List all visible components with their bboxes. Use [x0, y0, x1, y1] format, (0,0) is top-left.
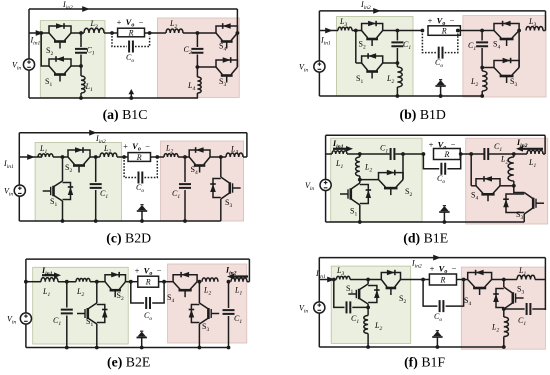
- wire S3 to bottom (e): [198, 324, 200, 348]
- svg-text:(e) B2E: (e) B2E: [107, 355, 150, 371]
- wire L2 to S4 (a): [183, 32, 216, 34]
- green highlight box (a): [40, 21, 105, 98]
- node S1 bottom (d): [358, 220, 362, 224]
- node input (e): [24, 280, 28, 284]
- inductor L1 red (f): [517, 275, 535, 279]
- node L2 red top (d): [512, 152, 516, 156]
- wire input (e): [26, 281, 41, 283]
- inductor L4 (a): [197, 77, 201, 93]
- green highlight box (d): [331, 138, 422, 221]
- wire right rail (d): [544, 135, 546, 154]
- capacitor Co (a): [129, 41, 133, 53]
- svg-text:Vin: Vin: [7, 315, 16, 326]
- wire left rail lower (b): [318, 72, 320, 96]
- ground symbol (c): [141, 211, 143, 221]
- node S3 top (d): [512, 184, 516, 188]
- voltage source Vin (b): [314, 61, 325, 72]
- wire S1 to node (b): [383, 62, 398, 64]
- wire node to L2 red (b): [481, 68, 483, 72]
- wire L4 to bottom (a): [196, 93, 198, 98]
- node R right (c): [155, 155, 159, 159]
- arrow Iin2 (a): [82, 6, 90, 12]
- wire C1 upper lead (a): [80, 33, 82, 47]
- svg-text:Co: Co: [144, 311, 152, 322]
- transistor S4 (f): [468, 273, 492, 280]
- node L4 top (a): [196, 65, 200, 69]
- voltage source Vin (d): [320, 179, 331, 190]
- wire to S1 left (b): [356, 62, 362, 64]
- wire dashed Co left (c): [124, 160, 136, 178]
- wire L3 to S2 (f): [350, 279, 381, 281]
- transistor S4 (c): [189, 150, 210, 157]
- wire C1 green lower (c): [95, 190, 97, 221]
- svg-text:Vin: Vin: [299, 304, 308, 315]
- wire left rail upper (a): [28, 9, 30, 59]
- svg-text:Iin1: Iin1: [315, 269, 326, 280]
- transistor S1 (b): [362, 56, 383, 63]
- wire L1 to rail (f): [535, 279, 545, 281]
- svg-text:+: +: [428, 16, 433, 26]
- capacitor Co (e): [146, 297, 150, 309]
- node R right (d): [459, 152, 463, 156]
- node S3 top (f): [502, 278, 506, 282]
- wire left rail upper (d): [325, 135, 327, 179]
- arrow Iin2 (e): [231, 275, 248, 277]
- node R right (e): [162, 280, 166, 284]
- node S1 top (d): [358, 178, 362, 182]
- node L2 green top (b): [396, 61, 400, 65]
- transistor S2 (d): [379, 173, 404, 180]
- svg-text:R: R: [128, 28, 134, 37]
- node C1 green top (e): [65, 280, 69, 284]
- node R right (f): [462, 278, 466, 282]
- wire R to C1 red (d): [461, 153, 485, 155]
- node R left (e): [129, 280, 133, 284]
- wire L1 red to rail (e): [247, 281, 249, 283]
- node S3 bottom (e): [198, 346, 202, 350]
- wire node to L4 (a): [196, 67, 198, 77]
- node ground (b): [439, 94, 443, 98]
- svg-text:(b) B1D: (b) B1D: [400, 107, 446, 123]
- arrow Iin1 (b): [325, 28, 333, 34]
- red highlight box (b): [463, 16, 546, 97]
- red highlight box (c): [161, 141, 244, 221]
- wire L1 to bottom (a): [80, 93, 82, 98]
- wire Co right (f): [446, 280, 464, 307]
- capacitor C1 red (e): [223, 310, 235, 314]
- inductor L1 red (d): [527, 150, 543, 154]
- wire R to S4 (e): [159, 281, 174, 283]
- inductor L2 red (b): [482, 71, 487, 91]
- node S2 riser top (d): [401, 152, 405, 156]
- node S1 top (e): [95, 280, 99, 284]
- arrow Iin2 (f): [433, 255, 441, 261]
- wire L1 red to rail (d): [543, 153, 545, 155]
- transistor S4 (e): [173, 275, 197, 282]
- wire C1 red upper (e): [228, 282, 230, 308]
- capacitor C1 green (e): [61, 310, 73, 314]
- transistor S4 (d): [476, 179, 500, 186]
- capacitor C1 green (d): [391, 148, 395, 160]
- node S3 bottom (f): [502, 307, 506, 311]
- svg-text:+: +: [135, 266, 140, 276]
- wire L2 red to bottom (b): [481, 91, 483, 96]
- wire S4-S3 right link (b): [518, 31, 520, 68]
- capacitor C1 red (b): [476, 42, 488, 46]
- capacitor Co (c): [139, 172, 143, 184]
- node L2 green top (d): [358, 152, 362, 156]
- node S4 riser (d): [469, 152, 473, 156]
- wire S3 to bottom (d): [523, 214, 525, 222]
- wire input (c): [19, 156, 42, 158]
- wire L3 to rail (c): [243, 156, 247, 158]
- wire C2 lower lead (a): [196, 55, 198, 68]
- wire Co left (f): [423, 280, 437, 307]
- svg-text:Co: Co: [437, 174, 445, 185]
- wire S1 to L2 (f): [367, 304, 369, 316]
- wire dashed Co right (a): [135, 36, 150, 47]
- node R left (d): [422, 152, 426, 156]
- svg-text:Vin: Vin: [4, 187, 13, 198]
- wire bottom rail (e): [26, 347, 229, 349]
- node C1 red bottom (e): [227, 346, 231, 350]
- transistor S1 (e): [88, 303, 97, 324]
- wire node to S2 left (d): [360, 179, 379, 181]
- load resistor R (a): [118, 28, 145, 37]
- node L2 bottom (f): [366, 345, 370, 349]
- capacitor C2 (a): [191, 49, 203, 53]
- load resistor R (d): [434, 149, 461, 160]
- svg-text:−: −: [145, 141, 150, 151]
- wire top rail (d): [326, 134, 545, 136]
- red highlight box (a): [157, 18, 239, 98]
- wire R to S4 (f): [457, 279, 468, 281]
- svg-text:−: −: [450, 16, 455, 26]
- transistor S3 (c): [221, 177, 230, 199]
- inductor L2 green (f): [364, 316, 368, 334]
- node S1-L1 (a): [79, 64, 83, 68]
- wire node to L2 green (b): [396, 63, 398, 67]
- svg-text:Vin: Vin: [12, 61, 21, 72]
- transistor S3 (d): [524, 193, 533, 215]
- svg-text:(c) B2D: (c) B2D: [106, 231, 151, 247]
- wire C1 green left (f): [334, 280, 345, 308]
- ground symbol (d): [443, 212, 445, 222]
- wire right rail (e): [248, 259, 250, 282]
- wire C1 green upper (c): [95, 157, 97, 182]
- node right rail S4 (a): [236, 31, 240, 35]
- capacitor C1 red (f): [527, 303, 531, 315]
- transistor S2 (f): [381, 273, 400, 280]
- capacitor Co (d): [441, 163, 445, 175]
- wire dashed Co left (a): [112, 36, 127, 47]
- wire node to S3 (d): [514, 186, 524, 193]
- wire node to S1 (c): [62, 157, 64, 181]
- node S2 left (c): [61, 155, 65, 159]
- wire S2 to R (b): [383, 30, 423, 32]
- wire S4 to L3 (c): [210, 156, 226, 158]
- wire S3 to L2 red (f): [503, 309, 505, 317]
- red highlight box (e): [168, 264, 247, 343]
- wire riser to S2 (d): [402, 154, 404, 180]
- arrow Iin1 (c): [27, 154, 35, 160]
- wire C1 red lower (b): [481, 48, 483, 68]
- wire node to S3 (e): [198, 282, 200, 303]
- node R left (a): [110, 31, 114, 35]
- inductor L2 red (e): [202, 278, 218, 282]
- ground symbol (b): [440, 86, 442, 96]
- wire S3 to bottom (c): [220, 199, 222, 221]
- arrow Iin1 (a): [36, 30, 44, 36]
- wire S1 to bottom (d): [359, 205, 361, 222]
- inductor L3 green (b): [338, 27, 352, 30]
- green highlight box (b): [337, 17, 414, 97]
- wire node to S3 (b): [482, 67, 494, 69]
- wire S2 to R (f): [401, 279, 430, 281]
- wire R to L2 (a): [145, 32, 167, 34]
- inductor L2 green (d): [356, 157, 360, 176]
- wire C1 red to rail (f): [532, 308, 545, 310]
- node S4 right (b): [517, 29, 521, 33]
- node L2 red bottom (f): [502, 345, 506, 349]
- wire L2 to bottom (f): [367, 334, 369, 348]
- svg-text:+: +: [117, 17, 122, 27]
- wire C1 green lower (b): [396, 48, 398, 63]
- wire right rail (f): [544, 258, 546, 310]
- svg-text:R: R: [136, 153, 142, 162]
- node S3 top (e): [198, 280, 202, 284]
- ground symbol (e): [141, 338, 143, 348]
- wire node to S3 (a): [197, 66, 216, 68]
- wire S1 to node (a): [71, 65, 81, 67]
- voltage source Vin (a): [23, 59, 34, 70]
- wire C1 green upper (b): [396, 31, 398, 41]
- wire L1 to L2 (e): [58, 281, 76, 283]
- wire top rail (e): [26, 258, 250, 260]
- node C2 top (a): [196, 31, 200, 35]
- svg-text:Vin: Vin: [305, 181, 314, 192]
- arrow Iin2 (c): [89, 130, 97, 136]
- transistor S1 (a): [49, 59, 71, 66]
- inductor L2 (a): [166, 29, 183, 33]
- inductor L2 red (d): [508, 157, 514, 181]
- node C1 red top (c): [183, 155, 187, 159]
- wire L3 red to rail (b): [543, 30, 546, 32]
- wire L3 to R (a): [104, 32, 118, 34]
- transistor S1 (c): [54, 181, 63, 201]
- capacitor Co (f): [440, 300, 444, 312]
- red highlight box (f): [461, 267, 545, 349]
- inductor L1 green (e): [41, 278, 58, 282]
- capacitor C1 red (c): [179, 184, 191, 188]
- voltage source Vin (c): [14, 185, 25, 196]
- wire Co right (d): [447, 154, 460, 169]
- wire input (d): [326, 153, 332, 155]
- transistor S4 (a): [216, 26, 237, 33]
- wire S2 to R (e): [126, 281, 138, 283]
- node S2 right (c): [94, 155, 98, 159]
- node S1 bottom (c): [61, 219, 65, 223]
- transistor S1 (d): [351, 183, 360, 205]
- svg-text:R: R: [443, 150, 449, 159]
- wire node to S1 (e): [96, 282, 98, 303]
- capacitor C1 red (d): [484, 148, 488, 160]
- red highlight box (d): [466, 138, 548, 224]
- svg-text:−: −: [157, 266, 162, 276]
- wire L2 red lower (d): [513, 181, 515, 186]
- inductor L1 red (e): [231, 278, 247, 282]
- svg-text:Vo: Vo: [132, 141, 141, 153]
- ground symbol (f): [436, 337, 438, 347]
- wire C1 red upper (b): [481, 31, 483, 41]
- wire left rail upper (e): [25, 259, 27, 313]
- svg-text:Vo: Vo: [144, 266, 153, 278]
- wire C1 red to L1 red (d): [488, 153, 527, 155]
- inductor L2 green (c): [100, 153, 117, 157]
- wire S2 to L3 (a): [71, 32, 84, 34]
- node C1 red top (e): [227, 280, 231, 284]
- wire bottom rail (d): [326, 221, 525, 223]
- wire S1 to bottom (e): [96, 324, 98, 348]
- green highlight box (e): [33, 267, 129, 344]
- wire left rail upper (f): [318, 258, 320, 302]
- svg-text:Vo: Vo: [126, 17, 135, 29]
- node C1 red bottom (c): [183, 219, 187, 223]
- transistor S3 (f): [504, 287, 513, 309]
- wire left rail lower (e): [25, 324, 27, 348]
- green highlight box (f): [331, 266, 411, 343]
- svg-text:(d) B1E: (d) B1E: [403, 231, 448, 247]
- node S3 top (c): [219, 155, 223, 159]
- capacitor C1 green (c): [90, 184, 102, 188]
- svg-text:Co: Co: [126, 53, 134, 64]
- wire L3 to S2 (b): [352, 30, 362, 32]
- wire left rail lower (d): [325, 191, 327, 223]
- wire node to S1 (f): [367, 280, 369, 285]
- wire input (f): [319, 279, 336, 281]
- wire L2 red to bottom (f): [503, 337, 505, 348]
- arrow Iin2 (d): [520, 148, 543, 150]
- svg-text:+: +: [430, 264, 435, 274]
- arrow Iin1 (e): [42, 274, 57, 276]
- inductor L2 red (c): [164, 154, 178, 157]
- wire C1 red lower (c): [184, 190, 186, 221]
- wire L2 to R (c): [117, 156, 128, 158]
- wire dashed Co right (c): [145, 160, 158, 178]
- wire C1 green right (f): [352, 306, 368, 308]
- wire bottom rail (a): [29, 97, 198, 99]
- wire node to L1 (a): [80, 66, 82, 76]
- wire right rail upper (a): [236, 9, 238, 33]
- wire top rail (f): [319, 257, 545, 259]
- svg-text:−: −: [139, 17, 144, 27]
- wire node to L2 red (d): [513, 154, 515, 157]
- wire dashed Co right (b): [445, 34, 458, 53]
- inductor L2 green (b): [397, 67, 402, 87]
- node C1-L2 (f): [366, 306, 370, 310]
- wire C1 red upper (c): [184, 157, 186, 182]
- transistor S2 (c): [68, 150, 90, 157]
- node bottom red (b): [480, 94, 484, 98]
- wire Co left (e): [131, 282, 144, 303]
- inductor L3 (c): [226, 153, 243, 157]
- node C1 green top (b): [396, 29, 400, 33]
- node bottom L1 (a): [79, 96, 83, 100]
- wire C2 upper lead (a): [196, 33, 198, 47]
- wire C1 to R (d): [396, 153, 424, 155]
- wire left rail lower (a): [28, 70, 30, 98]
- wire input (b): [319, 30, 338, 32]
- wire S2 to L2 (c): [90, 156, 100, 158]
- wire L2 red to S4 (c): [178, 156, 189, 158]
- wire down to S1 (a): [41, 33, 49, 66]
- wire S1 to bottom (c): [62, 201, 64, 221]
- ground reference arrow (a): [130, 94, 132, 99]
- wire node to L2 (d): [359, 154, 361, 157]
- load resistor R (f): [429, 274, 456, 285]
- transistor S3 (a): [216, 60, 237, 67]
- svg-text:R: R: [145, 278, 151, 287]
- wire C1 red lower (e): [228, 316, 230, 348]
- wire input (a): [29, 32, 49, 34]
- inductor L3 red (b): [526, 26, 543, 30]
- inductor L2 green (e): [76, 278, 90, 281]
- svg-text:+: +: [123, 141, 128, 151]
- inductor L3 (a): [84, 28, 104, 33]
- wire bottom rail (c): [19, 220, 221, 222]
- node bottom green (b): [396, 94, 400, 98]
- wire down to S1 (b): [355, 31, 357, 64]
- wire dashed Co left (b): [422, 34, 436, 53]
- capacitor C1 green (f): [347, 301, 351, 313]
- svg-text:Co: Co: [434, 312, 442, 323]
- svg-text:Iin1: Iin1: [320, 36, 331, 47]
- wire node to S3 (c): [220, 157, 222, 177]
- wire C1 green upper (e): [66, 282, 68, 308]
- svg-text:Iin1: Iin1: [3, 159, 14, 170]
- transistor S2 (e): [105, 275, 126, 282]
- capacitor C1 green (b): [391, 42, 403, 46]
- load resistor R (e): [138, 276, 159, 287]
- transistor S2 (a): [49, 26, 71, 33]
- wire left rail upper (b): [318, 11, 320, 61]
- arrow Iin1 (d): [333, 148, 349, 150]
- wire L2 green to bottom (b): [396, 87, 398, 96]
- wire S4 to L1 (f): [492, 279, 517, 281]
- wire top rail (c): [19, 132, 247, 134]
- wire bottom rail (f): [319, 346, 504, 348]
- transistor S4 (b): [494, 24, 519, 31]
- svg-text:−: −: [452, 264, 457, 274]
- arrow Iin2 (b): [373, 8, 381, 14]
- svg-text:Iin1: Iin1: [30, 36, 41, 47]
- wire riser to S4 (d): [470, 154, 472, 186]
- wire left rail lower (c): [18, 196, 20, 221]
- wire L1 to C1 (d): [347, 153, 390, 155]
- inductor L3 (f): [336, 276, 350, 279]
- node S1 bottom (e): [95, 346, 99, 350]
- transistor S3 (e): [199, 303, 208, 324]
- capacitor Co (b): [439, 47, 443, 59]
- wire L1 to S2 (c): [53, 156, 68, 158]
- transistor S1 (f): [359, 284, 368, 304]
- wire left rail lower (f): [318, 313, 320, 347]
- inductor L2 red (f): [504, 317, 509, 337]
- wire C1 green lower (e): [66, 316, 68, 348]
- svg-text:Co: Co: [136, 183, 144, 194]
- transistor S2 (b): [362, 24, 383, 31]
- node R left (c): [122, 155, 126, 159]
